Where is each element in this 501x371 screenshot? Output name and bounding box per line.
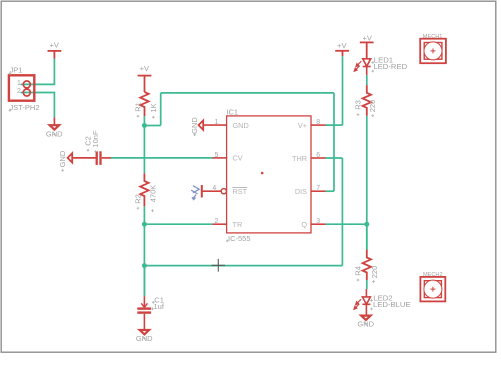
resistor R1 xyxy=(140,92,148,116)
pin number 7 xyxy=(316,185,320,192)
svg-text:470K: 470K xyxy=(148,185,157,203)
label 220 (R3) xyxy=(368,100,377,113)
wire TR horizontal xyxy=(144,223,212,225)
svg-text:TR: TR xyxy=(233,220,243,229)
wire origin cross marker on THR net xyxy=(212,259,225,272)
svg-text:R3: R3 xyxy=(354,100,363,110)
svg-text:6: 6 xyxy=(316,152,320,159)
label R2 xyxy=(134,194,143,204)
LED1 emission arrows xyxy=(354,61,361,71)
label R4 xyxy=(354,266,363,276)
pin name THR xyxy=(292,154,307,163)
pin name GND xyxy=(233,121,249,130)
supply +V (JP1) xyxy=(48,51,62,59)
label +V (R1) xyxy=(140,64,149,73)
LED2 emission arrows xyxy=(354,299,361,309)
pin name RST with overline xyxy=(232,187,247,196)
svg-text:R4: R4 xyxy=(354,266,363,276)
svg-text:220: 220 xyxy=(370,266,379,279)
IC U1 box xyxy=(227,116,311,233)
wire into THR pin xyxy=(326,157,343,159)
svg-text:220: 220 xyxy=(368,100,377,113)
wire JP1 pin2 to GND vertical xyxy=(53,93,55,118)
junction R2/TR xyxy=(142,222,147,227)
pin 8 V+ stub xyxy=(311,124,326,126)
label LED1 xyxy=(374,55,393,64)
pin number 1 (JP1) xyxy=(17,80,21,87)
pin number 6 xyxy=(316,152,320,159)
svg-text:2: 2 xyxy=(214,218,218,225)
wire top horizontal to DIS xyxy=(161,92,334,94)
svg-text:2: 2 xyxy=(17,88,21,95)
svg-text:+V: +V xyxy=(140,64,149,73)
capacitor C1 xyxy=(137,296,151,330)
svg-text:THR: THR xyxy=(292,154,307,163)
wire THR vertical xyxy=(341,158,343,266)
capacitor C2 xyxy=(72,151,111,165)
label 10nF xyxy=(91,130,100,148)
label LED-BLUE xyxy=(373,300,411,309)
wire R1 bottom to R2 top xyxy=(143,116,145,173)
pin number 3 xyxy=(316,218,320,225)
supply +V (R1) xyxy=(138,76,152,92)
supply +V (LED1) xyxy=(360,42,374,58)
pin name DIS xyxy=(295,187,307,196)
pin name Q xyxy=(301,220,307,229)
wire JP1 pin2 horizontal xyxy=(21,92,56,94)
label LED-RED xyxy=(373,62,407,71)
ground GND (C1) xyxy=(136,330,153,343)
svg-text:CV: CV xyxy=(233,154,243,163)
pin number 8 xyxy=(316,119,320,126)
pin 2 TR stub xyxy=(213,223,227,225)
svg-text:R2: R2 xyxy=(134,194,143,204)
svg-text:JST-PH2: JST-PH2 xyxy=(10,103,40,112)
wire DIS riser vertical xyxy=(160,93,162,126)
wire into DIS pin xyxy=(326,190,335,192)
label JP1 xyxy=(10,66,23,75)
svg-text:Q: Q xyxy=(301,220,307,229)
label +V (pin 8) xyxy=(337,41,346,50)
wire R2 bottom vertical xyxy=(143,206,145,296)
svg-text:RST: RST xyxy=(233,187,248,196)
pin number 5 xyxy=(214,152,218,159)
pin name CV xyxy=(233,154,243,163)
pin 6 THR stub xyxy=(311,157,326,159)
label IC1 xyxy=(226,108,238,117)
pin 1 GND stub xyxy=(203,124,226,126)
svg-text:1: 1 xyxy=(214,119,218,126)
label LED2 xyxy=(373,293,392,302)
LED LED2 xyxy=(362,289,370,316)
label +V (JP1) xyxy=(50,41,59,50)
pin 4 inversion bubble xyxy=(221,189,226,194)
wire DIS down vertical xyxy=(333,93,335,191)
mounting hole MECH1 xyxy=(420,34,446,63)
label 220 (R4) xyxy=(370,266,379,279)
reset flag (blue) xyxy=(191,186,199,200)
junction C1/THR xyxy=(142,263,147,268)
wire +V to pin 8 vertical xyxy=(342,56,344,125)
svg-text:3: 3 xyxy=(316,218,320,225)
resistor R3 xyxy=(363,85,371,116)
resistor R2 xyxy=(140,173,148,206)
wire junction to DIS riser xyxy=(144,125,160,127)
svg-text:7: 7 xyxy=(316,185,320,192)
svg-text:1: 1 xyxy=(17,80,21,87)
label C1 xyxy=(154,296,164,305)
svg-text:IC-555: IC-555 xyxy=(228,234,251,243)
label +V (LED1) xyxy=(363,34,372,43)
svg-text:10nF: 10nF xyxy=(91,130,100,148)
svg-text:4: 4 xyxy=(212,185,216,192)
svg-text:DIS: DIS xyxy=(295,187,307,196)
pin 5 CV stub xyxy=(213,157,227,159)
connector JP1 xyxy=(9,75,34,100)
label R1 xyxy=(134,102,143,112)
svg-text:GND: GND xyxy=(233,121,249,130)
wire Q horizontal xyxy=(326,223,367,225)
LED LED1 xyxy=(363,59,371,75)
pin number 2 (JP1) xyxy=(17,88,21,95)
junction R1/R2/DIS xyxy=(142,123,147,128)
wire LED chain upper vertical xyxy=(366,116,368,250)
svg-text:IC1: IC1 xyxy=(226,108,238,117)
label 470K xyxy=(148,185,157,203)
pin 7 DIS stub xyxy=(311,190,326,192)
pin number 4 xyxy=(212,185,216,192)
IC origin dot xyxy=(261,172,264,175)
label C2 xyxy=(84,136,93,146)
svg-text:1uf: 1uf xyxy=(154,302,165,311)
wire pin 8 horizontal xyxy=(326,124,343,126)
pin 3 Q stub xyxy=(311,223,326,225)
text origin cross marks xyxy=(9,61,375,339)
svg-text:GND: GND xyxy=(58,150,67,167)
label 1K xyxy=(149,103,158,112)
wire C1 top xyxy=(143,266,145,297)
pin name V+ xyxy=(298,121,307,130)
ground GND (C2) xyxy=(58,150,72,167)
svg-text:5: 5 xyxy=(214,152,218,159)
mounting hole MECH2 xyxy=(420,272,445,301)
wire THR long horizontal xyxy=(144,265,342,267)
resistor R4 xyxy=(363,250,371,280)
svg-text:8: 8 xyxy=(316,119,320,126)
wire R4 to LED2 xyxy=(366,280,368,289)
pin number 2 xyxy=(214,218,218,225)
wire JP1 pin1 horizontal xyxy=(21,83,56,85)
pin 4 RST bar xyxy=(201,185,203,198)
svg-text:+V: +V xyxy=(337,41,346,50)
pin number 1 xyxy=(214,119,218,126)
ground GND (pin 1) xyxy=(190,117,203,134)
label 1uf xyxy=(154,302,165,311)
svg-text:+V: +V xyxy=(50,41,59,50)
svg-text:LED-BLUE: LED-BLUE xyxy=(373,300,411,309)
supply +V (pin 8) xyxy=(335,51,349,56)
wire JP1 pin1 to +V vertical xyxy=(53,59,55,85)
label JST-PH2 xyxy=(10,103,40,112)
svg-text:1K: 1K xyxy=(149,103,158,112)
wire junction to R4 xyxy=(366,224,368,249)
ground GND (JP1) xyxy=(46,117,63,138)
svg-text:R1: R1 xyxy=(134,102,143,112)
label R3 xyxy=(354,100,363,110)
pin 4 RST stub xyxy=(202,190,221,192)
svg-text:LED-RED: LED-RED xyxy=(373,62,407,71)
svg-text:JP1: JP1 xyxy=(10,66,23,75)
wire CV horizontal xyxy=(111,157,213,159)
svg-text:V+: V+ xyxy=(298,121,307,130)
pin name TR xyxy=(233,220,243,229)
wire LED1 to R3 xyxy=(366,75,368,85)
svg-text:+V: +V xyxy=(363,34,372,43)
junction Q/LED chain xyxy=(364,222,369,227)
label IC-555 xyxy=(228,234,251,243)
ground GND (LED2) xyxy=(357,316,374,329)
